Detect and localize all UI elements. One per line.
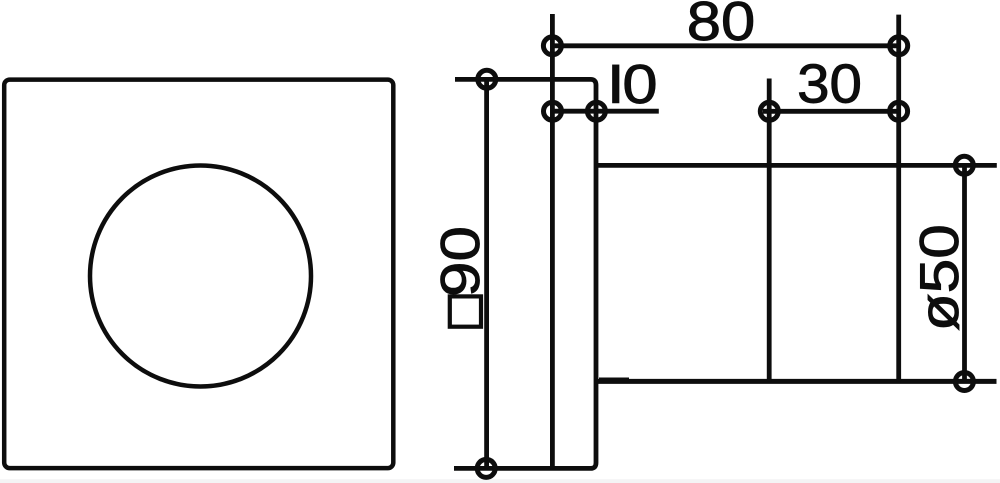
- svg-text:80: 80: [687, 0, 756, 52]
- svg-text:0: 0: [622, 53, 657, 115]
- svg-text:ø50: ø50: [909, 224, 970, 331]
- svg-text:90: 90: [429, 226, 491, 297]
- svg-text:30: 30: [797, 54, 862, 115]
